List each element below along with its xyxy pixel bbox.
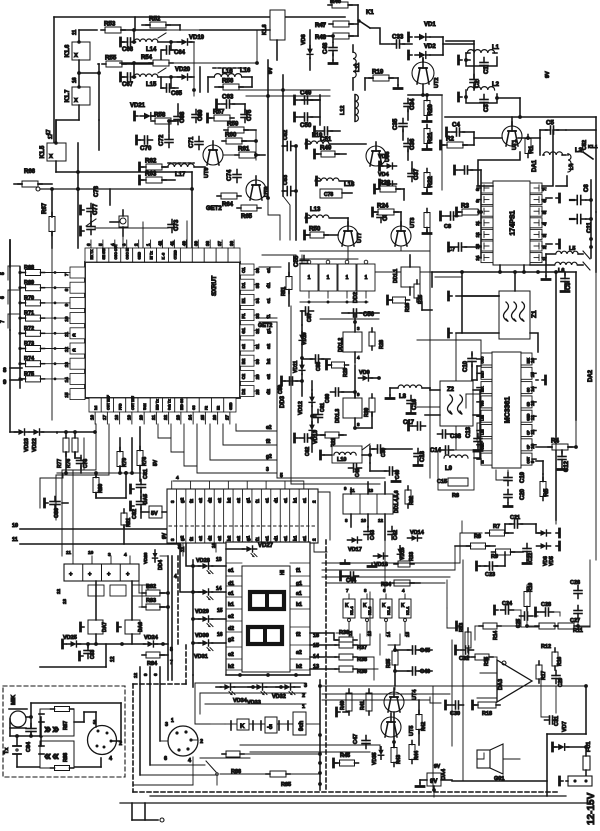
svg-text:GET2: GET2 <box>258 323 272 329</box>
svg-text:K1.7: K1.7 <box>65 89 71 102</box>
svg-text:E1: E1 <box>241 297 246 303</box>
svg-text:C49: C49 <box>300 90 312 97</box>
svg-text:g2: g2 <box>179 497 184 503</box>
svg-text:»: » <box>52 721 59 736</box>
svg-text:C28: C28 <box>541 602 551 608</box>
svg-text:R75: R75 <box>24 371 34 377</box>
svg-text:DEC: DEC <box>481 370 485 377</box>
svg-text:R88: R88 <box>63 753 69 762</box>
svg-text:VD23: VD23 <box>24 438 30 452</box>
svg-text:12-15V: 12-15V <box>586 792 597 825</box>
svg-text:C1: C1 <box>241 267 246 273</box>
svg-text:-5: -5 <box>267 725 273 731</box>
svg-text:VD14: VD14 <box>410 530 425 536</box>
svg-text:«: « <box>72 332 76 339</box>
svg-text:RX TX: RX TX <box>90 249 94 260</box>
svg-text:d2: d2 <box>208 497 213 503</box>
svg-text:K1.1: K1.1 <box>405 606 410 615</box>
svg-text:L16: L16 <box>222 68 233 75</box>
svg-text:L15: L15 <box>146 82 157 88</box>
svg-text:R13: R13 <box>459 623 465 632</box>
svg-text:C55: C55 <box>293 255 300 267</box>
svg-text:16: 16 <box>90 414 95 420</box>
svg-text:VD17: VD17 <box>348 547 362 553</box>
svg-text:R80: R80 <box>98 484 104 493</box>
svg-text:C45: C45 <box>420 648 430 654</box>
svg-text:R44: R44 <box>414 751 420 760</box>
svg-text:VD32: VD32 <box>272 694 286 700</box>
svg-text:DA1: DA1 <box>532 159 538 172</box>
svg-text:R43: R43 <box>396 755 402 764</box>
svg-text:C14: C14 <box>430 448 442 454</box>
svg-text:R16: R16 <box>557 657 563 666</box>
svg-text:DA2: DA2 <box>588 369 594 382</box>
svg-text:F1: F1 <box>241 313 246 319</box>
svg-text:GND: GND <box>138 251 142 259</box>
svg-text:R32: R32 <box>409 496 415 505</box>
svg-text:E2: E2 <box>217 406 221 410</box>
svg-text:R1: R1 <box>528 145 535 153</box>
svg-text:R21: R21 <box>427 132 434 144</box>
svg-text:K -S: K -S <box>162 252 166 260</box>
svg-text:R70: R70 <box>24 295 34 301</box>
svg-text:VD34: VD34 <box>233 698 248 704</box>
svg-text:d2: d2 <box>228 626 234 632</box>
svg-text:R2: R2 <box>446 136 454 143</box>
svg-text:VD7: VD7 <box>562 721 568 732</box>
svg-text:R72: R72 <box>24 326 34 332</box>
svg-text:VD9: VD9 <box>359 370 370 376</box>
svg-text:c2: c2 <box>266 374 272 380</box>
svg-text:27: 27 <box>224 414 229 420</box>
svg-text:24: 24 <box>188 414 193 420</box>
svg-text:R64: R64 <box>222 202 234 208</box>
svg-text:g2: g2 <box>228 637 234 643</box>
svg-text:VD24: VD24 <box>144 635 159 641</box>
svg-text:10: 10 <box>211 542 216 548</box>
svg-text:22: 22 <box>163 414 168 420</box>
svg-text:R76: R76 <box>66 459 72 468</box>
svg-text:R53: R53 <box>104 21 116 28</box>
svg-text:L17: L17 <box>175 172 186 178</box>
svg-text:13: 13 <box>64 362 69 368</box>
svg-text:R38: R38 <box>357 657 367 663</box>
svg-text:R33: R33 <box>409 552 415 561</box>
svg-text:VD22: VD22 <box>32 438 38 452</box>
svg-text:C59: C59 <box>278 385 284 394</box>
svg-text:VD6: VD6 <box>543 556 549 566</box>
svg-text:15: 15 <box>313 643 319 649</box>
svg-text:C19: C19 <box>520 471 526 483</box>
svg-text:9: 9 <box>143 673 148 676</box>
svg-text:a2: a2 <box>236 535 241 541</box>
svg-text:UT7: UT7 <box>357 233 363 243</box>
svg-text:UT2: UT2 <box>434 78 440 88</box>
svg-text:R67: R67 <box>42 202 48 214</box>
svg-text:14: 14 <box>64 377 69 383</box>
svg-text:K: K <box>382 603 386 609</box>
svg-text:g1: g1 <box>245 497 250 503</box>
svg-text:x: x <box>74 97 78 104</box>
svg-text:f2: f2 <box>296 632 301 638</box>
svg-text:R50: R50 <box>309 226 321 233</box>
svg-text:11: 11 <box>180 546 186 552</box>
svg-text:VD25: VD25 <box>63 635 77 641</box>
svg-text:R58: R58 <box>154 112 166 119</box>
svg-text:2: 2 <box>200 739 203 745</box>
svg-text:3: 3 <box>304 683 307 689</box>
svg-text:f1: f1 <box>255 498 260 503</box>
svg-text:b2: b2 <box>227 535 232 541</box>
svg-text:11: 11 <box>66 550 71 556</box>
svg-text:x: x <box>49 153 53 160</box>
svg-text:«: « <box>52 748 59 763</box>
svg-text:e1: e1 <box>264 497 269 503</box>
svg-text:e1: e1 <box>228 568 234 574</box>
svg-text:R23: R23 <box>379 180 391 187</box>
svg-text:VD12: VD12 <box>298 401 304 415</box>
svg-text:L1: L1 <box>492 45 500 51</box>
svg-text:+: + <box>107 572 111 578</box>
svg-text:C61: C61 <box>320 403 326 412</box>
svg-text:35: 35 <box>255 283 260 289</box>
svg-text:VD35: VD35 <box>372 752 378 765</box>
svg-text:C10: C10 <box>463 360 469 372</box>
svg-text:17: 17 <box>48 133 54 139</box>
svg-text:R28: R28 <box>379 340 385 349</box>
svg-text:18: 18 <box>114 414 119 420</box>
svg-text:11: 11 <box>72 29 78 35</box>
svg-text:2: 2 <box>302 693 305 699</box>
svg-text:R66: R66 <box>24 169 36 175</box>
svg-text:3: 3 <box>170 500 175 503</box>
svg-text:32: 32 <box>255 328 260 334</box>
svg-text:R82: R82 <box>146 584 156 590</box>
svg-text:UT9: UT9 <box>204 168 210 178</box>
svg-text:+: + <box>126 572 130 578</box>
svg-text:K1.6: K1.6 <box>65 44 71 57</box>
svg-text:+: + <box>69 572 73 578</box>
svg-text:«: « <box>44 748 51 763</box>
svg-text:d1: d1 <box>274 497 279 503</box>
svg-text:FU1: FU1 <box>586 742 592 752</box>
svg-text:R78: R78 <box>142 457 148 466</box>
svg-text:C3: C3 <box>484 104 490 112</box>
svg-text:x: x <box>74 52 78 59</box>
svg-text:31: 31 <box>255 343 260 349</box>
svg-text:R87: R87 <box>63 721 69 730</box>
svg-text:a2: a2 <box>236 497 241 503</box>
svg-text:R56: R56 <box>222 78 234 85</box>
svg-text:GND: GND <box>229 402 233 410</box>
svg-text:17: 17 <box>102 414 107 420</box>
svg-text:K1.5: K1.5 <box>40 145 46 158</box>
svg-text:b2: b2 <box>227 497 232 503</box>
svg-text:c2: c2 <box>217 535 222 541</box>
svg-text:8: 8 <box>170 647 173 653</box>
svg-text:R14: R14 <box>493 631 499 640</box>
svg-text:1: 1 <box>308 275 311 281</box>
svg-text:e1: e1 <box>264 535 269 541</box>
svg-text:R5: R5 <box>543 488 550 496</box>
svg-text:13: 13 <box>368 488 374 493</box>
svg-text:R83: R83 <box>146 598 156 604</box>
svg-text:B2: B2 <box>241 358 246 364</box>
svg-text:K: K <box>401 603 405 609</box>
svg-text:K: K <box>240 723 245 730</box>
svg-text:IN Tx: IN Tx <box>150 251 154 259</box>
svg-text:R29: R29 <box>343 368 349 377</box>
svg-text:12: 12 <box>56 588 61 594</box>
svg-text:C4: C4 <box>452 122 460 129</box>
svg-text:K: K <box>345 603 349 609</box>
svg-text:R52: R52 <box>149 16 161 23</box>
svg-text:6: 6 <box>164 756 167 762</box>
svg-text:DA5: DA5 <box>143 494 149 504</box>
svg-text:16: 16 <box>313 633 319 639</box>
svg-text:C81: C81 <box>143 469 149 479</box>
svg-text:C76: C76 <box>94 185 100 197</box>
svg-text:R8: R8 <box>474 534 481 540</box>
svg-text:MC3361: MC3361 <box>505 397 512 424</box>
svg-text:C20: C20 <box>520 488 526 500</box>
svg-text:6: 6 <box>153 673 158 676</box>
svg-text:UT8: UT8 <box>264 187 270 197</box>
svg-text:R42: R42 <box>421 722 427 731</box>
svg-text:VD27: VD27 <box>258 543 274 549</box>
svg-text:K1.1: K1.1 <box>588 144 598 149</box>
svg-text:R4: R4 <box>551 438 559 445</box>
svg-text:c2: c2 <box>217 497 222 503</box>
svg-text:C34: C34 <box>409 98 416 110</box>
svg-text:c2: c2 <box>228 652 234 658</box>
svg-text:Z1: Z1 <box>531 310 538 318</box>
svg-text:R65: R65 <box>241 214 253 220</box>
svg-text:C77: C77 <box>92 203 99 215</box>
svg-text:R22: R22 <box>427 176 434 188</box>
svg-text:26: 26 <box>212 414 217 420</box>
svg-text:R51: R51 <box>281 287 287 296</box>
svg-text:9: 9 <box>64 303 69 306</box>
svg-text:OUT DIU: OUT DIU <box>131 396 135 410</box>
svg-text:1: 1 <box>171 718 174 724</box>
svg-text:d2: d2 <box>208 535 213 541</box>
svg-text:14: 14 <box>216 586 222 592</box>
svg-text:c1: c1 <box>266 267 272 273</box>
svg-text:c1: c1 <box>283 497 288 503</box>
svg-text:R45: R45 <box>340 753 350 759</box>
svg-text:7: 7 <box>64 273 69 276</box>
svg-text:L12: L12 <box>340 106 346 115</box>
svg-text:15: 15 <box>405 631 410 637</box>
svg-text:3: 3 <box>266 467 269 473</box>
svg-text:40: 40 <box>181 240 186 246</box>
svg-text:HI: HI <box>280 569 286 575</box>
svg-text:1: 1 <box>346 275 349 281</box>
svg-text:C84: C84 <box>26 741 32 752</box>
svg-text:C42: C42 <box>393 530 399 540</box>
svg-text:f1: f1 <box>255 536 260 541</box>
svg-text:G3: G3 <box>192 405 196 410</box>
svg-text:3: 3 <box>170 538 175 541</box>
svg-text:8: 8 <box>64 288 69 291</box>
svg-text:MIK: MIK <box>11 695 17 705</box>
svg-text:10: 10 <box>64 316 69 322</box>
svg-text:C38: C38 <box>450 434 462 440</box>
svg-text:c1: c1 <box>228 591 234 597</box>
svg-text:a2: a2 <box>241 344 246 349</box>
svg-text:C52: C52 <box>283 130 289 140</box>
svg-text:C11: C11 <box>587 222 593 233</box>
svg-text:DD1.1: DD1.1 <box>393 269 399 283</box>
svg-text:L2: L2 <box>492 82 500 88</box>
svg-text:C41: C41 <box>355 468 361 477</box>
svg-text:C57: C57 <box>307 313 313 322</box>
svg-text:R35: R35 <box>386 659 392 668</box>
svg-text:g2: g2 <box>266 454 272 460</box>
svg-text:K1.3: K1.3 <box>367 606 372 615</box>
svg-text:C23: C23 <box>485 572 495 578</box>
svg-text:5: 5 <box>280 473 283 479</box>
svg-text:a1: a1 <box>296 591 302 597</box>
svg-text:5V: 5V <box>151 511 158 517</box>
svg-text:R40: R40 <box>340 701 346 710</box>
svg-text:R73: R73 <box>24 341 34 347</box>
svg-text:R6: R6 <box>452 493 459 499</box>
svg-text:R18: R18 <box>482 711 492 717</box>
svg-text:SXRUT: SXRUT <box>212 275 218 296</box>
svg-text:L13: L13 <box>310 207 321 213</box>
svg-text:b2: b2 <box>296 664 302 670</box>
svg-text:DD1.2: DD1.2 <box>338 338 344 352</box>
svg-text:R25: R25 <box>418 295 424 304</box>
svg-text:11: 11 <box>12 537 18 543</box>
svg-text:12: 12 <box>110 656 116 662</box>
svg-text:R24: R24 <box>377 203 389 210</box>
svg-text:39: 39 <box>193 240 198 246</box>
svg-text:19: 19 <box>126 414 131 420</box>
svg-text:R17: R17 <box>541 671 547 680</box>
svg-text:c1: c1 <box>283 535 288 541</box>
svg-text:VD10: VD10 <box>302 332 308 345</box>
svg-text:L9: L9 <box>445 466 453 472</box>
svg-text:VD30: VD30 <box>195 633 209 639</box>
svg-text:R69: R69 <box>24 280 34 286</box>
svg-text:C78: C78 <box>324 192 333 198</box>
svg-text:VD21: VD21 <box>130 103 146 109</box>
svg-text:23: 23 <box>175 414 180 420</box>
svg-text:C26: C26 <box>570 580 580 586</box>
svg-text:36: 36 <box>255 267 260 273</box>
svg-text:C36: C36 <box>409 138 416 150</box>
svg-text:DD2: DD2 <box>353 292 359 303</box>
svg-text:R7: R7 <box>493 524 500 530</box>
svg-text:R49: R49 <box>320 145 332 152</box>
svg-text:C80: C80 <box>54 508 60 518</box>
svg-text:C58: C58 <box>316 362 322 371</box>
svg-text:f2: f2 <box>189 536 194 541</box>
svg-text:DD1.4,5,6: DD1.4,5,6 <box>394 490 400 513</box>
svg-text:12: 12 <box>64 346 69 352</box>
svg-text:h2: h2 <box>228 664 234 670</box>
svg-text:R9: R9 <box>491 554 498 560</box>
svg-text:C52: C52 <box>582 140 588 150</box>
svg-text:VD8: VD8 <box>301 34 307 45</box>
svg-text:DEC: DEC <box>481 442 485 449</box>
svg-text:C70: C70 <box>140 145 152 152</box>
svg-text:L5: L5 <box>569 246 575 252</box>
svg-text:C71: C71 <box>188 136 195 148</box>
svg-text:f2: f2 <box>189 498 194 503</box>
svg-text:9ch Tx: 9ch Tx <box>168 399 172 410</box>
svg-text:OSC IN: OSC IN <box>126 247 130 259</box>
svg-text:L18: L18 <box>344 182 355 188</box>
svg-text:DA7: DA7 <box>102 622 108 632</box>
svg-text:FFD: FFD <box>119 403 123 410</box>
svg-text:R74: R74 <box>24 356 35 362</box>
svg-text:42: 42 <box>158 240 163 246</box>
svg-text:e2: e2 <box>198 497 203 503</box>
svg-text:DD3: DD3 <box>280 395 286 408</box>
svg-text:36: 36 <box>229 240 234 246</box>
svg-text:UT3: UT3 <box>410 218 416 228</box>
svg-text:30: 30 <box>255 359 260 365</box>
svg-text:Z2: Z2 <box>447 387 455 393</box>
svg-text:14: 14 <box>386 631 391 637</box>
svg-text:L19: L19 <box>312 133 323 139</box>
svg-text:C47: C47 <box>353 734 359 744</box>
svg-text:a2: a2 <box>296 650 302 656</box>
svg-text:C50: C50 <box>300 122 312 129</box>
svg-text:C21: C21 <box>510 515 520 521</box>
svg-text:a1: a1 <box>302 497 307 503</box>
svg-text:C18: C18 <box>420 450 426 462</box>
svg-text:41: 41 <box>169 240 174 246</box>
svg-text:12: 12 <box>378 518 384 523</box>
svg-text:h1: h1 <box>228 602 234 608</box>
svg-text:R12: R12 <box>541 644 551 650</box>
svg-text:2: 2 <box>311 538 316 541</box>
svg-text:16: 16 <box>217 632 223 638</box>
svg-text:K1.2: K1.2 <box>386 606 391 615</box>
svg-text:13: 13 <box>216 557 222 563</box>
svg-text:C48: C48 <box>322 42 329 54</box>
svg-text:9V: 9V <box>545 71 551 78</box>
svg-text:3: 3 <box>108 552 111 558</box>
svg-text:C15: C15 <box>437 479 447 485</box>
svg-text:C43: C43 <box>370 530 376 540</box>
svg-text:R62: R62 <box>145 158 157 165</box>
svg-text:C31: C31 <box>554 716 560 726</box>
svg-text:R57: R57 <box>213 109 225 116</box>
svg-text:C60: C60 <box>325 394 331 403</box>
svg-text:OUT REF: OUT REF <box>106 395 110 410</box>
svg-text:C73: C73 <box>173 219 180 231</box>
svg-text:e2: e2 <box>228 614 234 620</box>
svg-text:L8: L8 <box>399 394 407 400</box>
svg-text:G1: G1 <box>241 327 246 333</box>
svg-text:VD15: VD15 <box>400 547 406 560</box>
svg-text:29: 29 <box>255 374 260 380</box>
svg-text:DD1.3: DD1.3 <box>335 409 341 423</box>
svg-text:R71: R71 <box>24 311 34 317</box>
svg-text:Tx: Tx <box>4 747 10 754</box>
svg-text:f1: f1 <box>296 568 301 574</box>
svg-text:DA3: DA3 <box>498 679 504 690</box>
svg-text:R19: R19 <box>372 69 384 76</box>
svg-text:+: + <box>88 572 92 578</box>
svg-text:»: » <box>44 721 51 736</box>
